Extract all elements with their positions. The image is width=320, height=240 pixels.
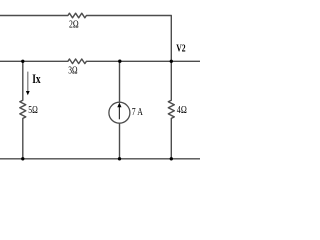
svg-text:Ix: Ix [32,71,41,86]
svg-text:7 A: 7 A [132,106,143,118]
svg-text:5Ω: 5Ω [28,104,38,116]
svg-text:V2: V2 [176,43,186,55]
svg-text:3Ω: 3Ω [68,64,77,76]
svg-text:2Ω: 2Ω [69,19,79,31]
svg-text:4Ω: 4Ω [177,104,187,116]
